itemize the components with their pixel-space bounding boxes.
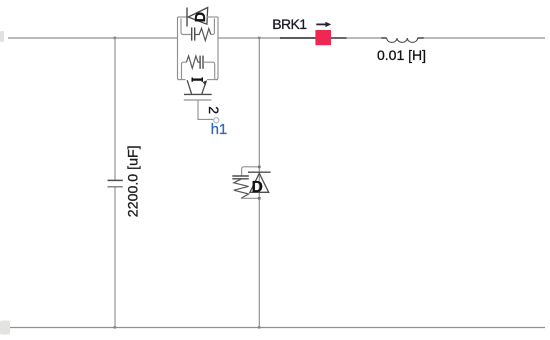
IGBT T1 left diagonal (187, 80, 191, 94)
svg-text:D: D (252, 179, 263, 196)
capacitor C1 plates (108, 180, 123, 186)
IGBT T1 right diagonal with arrow (202, 80, 207, 94)
node junction bottom diode branch (258, 326, 261, 329)
diode D2 triangle (250, 173, 269, 192)
diode D1 triangle (188, 8, 208, 25)
IGBT T1 collector stub right (207, 79, 218, 81)
svg-text:2200.0 [uF]: 2200.0 [uF] (126, 145, 142, 217)
IGBT T1 gate signal h1 (211, 121, 228, 138)
snubber S2igbt right riser (203, 62, 215, 79)
node junction top diode branch (258, 37, 261, 40)
snubber S2igbt resistor zigzag (186, 56, 200, 68)
node junction snubber S2 top (258, 166, 261, 169)
node junction snubber S2 bottom (258, 197, 261, 200)
IGBT T1 pin number 2 (206, 106, 222, 114)
diode D1 axis left (178, 16, 188, 18)
snubber S1 right riser (211, 19, 215, 35)
wire capacitor branch upper (114, 38, 116, 180)
snubber S2 wire bottom (241, 197, 259, 199)
IGBT T1 black gate bar (192, 77, 202, 81)
wire top bus breaker to inductor (347, 37, 382, 39)
inductor L1 lead left (381, 37, 386, 39)
inductor L1 coil arcs (387, 38, 418, 42)
inductor L1 lead right (418, 37, 424, 39)
snubber S2 resistor zigzag (234, 179, 249, 199)
breaker BRK1 lead left (280, 37, 316, 39)
snubber S1 resistor zigzag (195, 28, 211, 40)
svg-text:0.01 [H]: 0.01 [H] (377, 47, 426, 63)
IGBT T1 emitter bar1 (184, 93, 212, 95)
wire top bus left segment (8, 37, 178, 39)
breaker BRK1 name label (272, 16, 307, 32)
IGBT T1 gate lead (198, 100, 214, 119)
diode D1 letter D (193, 12, 209, 22)
canvas edge artifact top left (0, 31, 4, 42)
wire bottom bus (8, 327, 545, 329)
breaker BRK1 lead right (331, 37, 347, 39)
diode D2 cathode bar (248, 171, 271, 173)
breaker BRK1 red square (315, 30, 331, 45)
svg-text:h1: h1 (211, 121, 228, 138)
wire capacitor branch lower (114, 187, 116, 328)
node junction top capacitor branch (114, 37, 117, 40)
snubber S2igbt left riser with resistor zigzag (182, 62, 187, 79)
svg-text:2: 2 (206, 106, 222, 114)
wire diode branch (258, 38, 260, 328)
node junction bottom capacitor branch (114, 326, 117, 329)
diode D1 cathode bar (186, 8, 188, 27)
svg-text:BRK1: BRK1 (272, 16, 307, 32)
inductor L1 value label 0.01 [H] (377, 47, 426, 63)
snubber S1 left riser (181, 19, 192, 35)
diode D1 axis right (207, 16, 218, 18)
wire top bus from valve to breaker (218, 37, 281, 39)
breaker BRK1 state arrow (316, 22, 331, 27)
IGBT T1 collector stub left (178, 79, 186, 81)
snubber S2 capacitor plates (232, 176, 249, 179)
canvas edge artifact bottom left (0, 321, 10, 335)
wire top bus right segment (424, 37, 545, 39)
diode D2 letter D (252, 179, 263, 196)
snubber S1 capacitor plates (192, 27, 195, 40)
snubber S2 wire top (242, 167, 260, 176)
snubber S2igbt capacitor plates (200, 56, 203, 69)
valve right post (216, 17, 218, 80)
capacitor C1 value label 2200.0 [uF] (126, 145, 142, 217)
IGBT T1 emitter bar2 (184, 99, 212, 101)
valve left post (178, 17, 180, 80)
IGBT T1 gate port circle (214, 118, 219, 123)
